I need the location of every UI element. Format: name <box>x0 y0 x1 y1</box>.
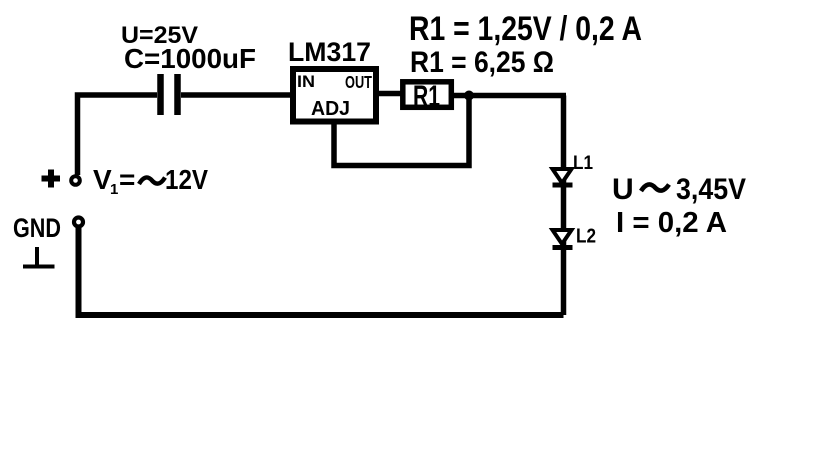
svg-text:L1: L1 <box>573 153 593 174</box>
svg-text:=: = <box>119 164 135 195</box>
svg-text:C=1000uF: C=1000uF <box>124 43 256 74</box>
svg-text:R1 = 6,25 Ω: R1 = 6,25 Ω <box>410 46 554 79</box>
svg-text:LM317: LM317 <box>288 37 371 67</box>
svg-text:U: U <box>612 173 634 206</box>
svg-text:L2: L2 <box>576 226 596 248</box>
svg-text:R1 = 1,25V / 0,2 A: R1 = 1,25V / 0,2 A <box>409 10 642 48</box>
svg-text:R1: R1 <box>413 80 440 113</box>
svg-text:ADJ: ADJ <box>311 98 350 120</box>
svg-text:OUT: OUT <box>345 72 372 92</box>
svg-text:I = 0,2 A: I = 0,2 A <box>616 207 727 239</box>
svg-text:IN: IN <box>297 73 315 91</box>
svg-text:GND: GND <box>13 213 61 243</box>
svg-text:1: 1 <box>110 181 118 198</box>
svg-text:12V: 12V <box>165 164 208 195</box>
svg-text:3,45V: 3,45V <box>676 173 746 206</box>
